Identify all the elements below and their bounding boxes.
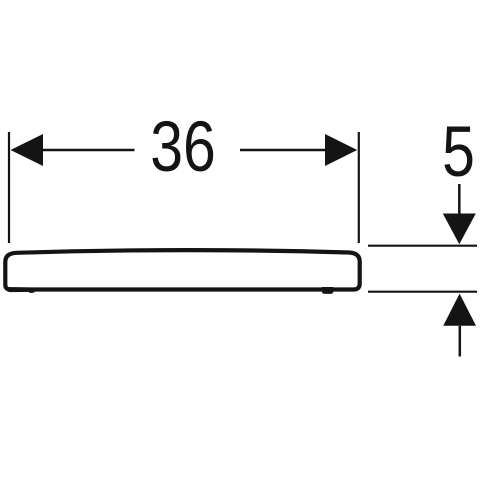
dimension line 36 left segment <box>42 149 135 151</box>
left bumper pad under seat <box>6 287 35 292</box>
svg-text:36: 36 <box>150 107 216 186</box>
right bumper foot <box>322 287 334 294</box>
arrowhead down of dimension 5 <box>443 214 476 245</box>
dimension 5 top reference line <box>368 245 477 247</box>
dimension 5 lower leader line <box>459 326 462 357</box>
arrowhead right of dimension 36 <box>325 134 357 166</box>
dimension line 36 right segment <box>240 149 326 151</box>
svg-text:5: 5 <box>442 112 475 191</box>
dimension 5 bottom reference line <box>368 291 477 293</box>
arrowhead left of dimension 36 <box>11 134 44 166</box>
extension line right <box>358 132 360 243</box>
dimension 5 upper leader line <box>458 184 461 214</box>
left bumper foot <box>28 289 35 294</box>
label 5 <box>442 112 475 191</box>
arrowhead up of dimension 5 <box>443 294 476 326</box>
label 36 <box>150 107 216 186</box>
extension line left <box>8 132 10 243</box>
seat lid profile outline <box>5 250 359 289</box>
